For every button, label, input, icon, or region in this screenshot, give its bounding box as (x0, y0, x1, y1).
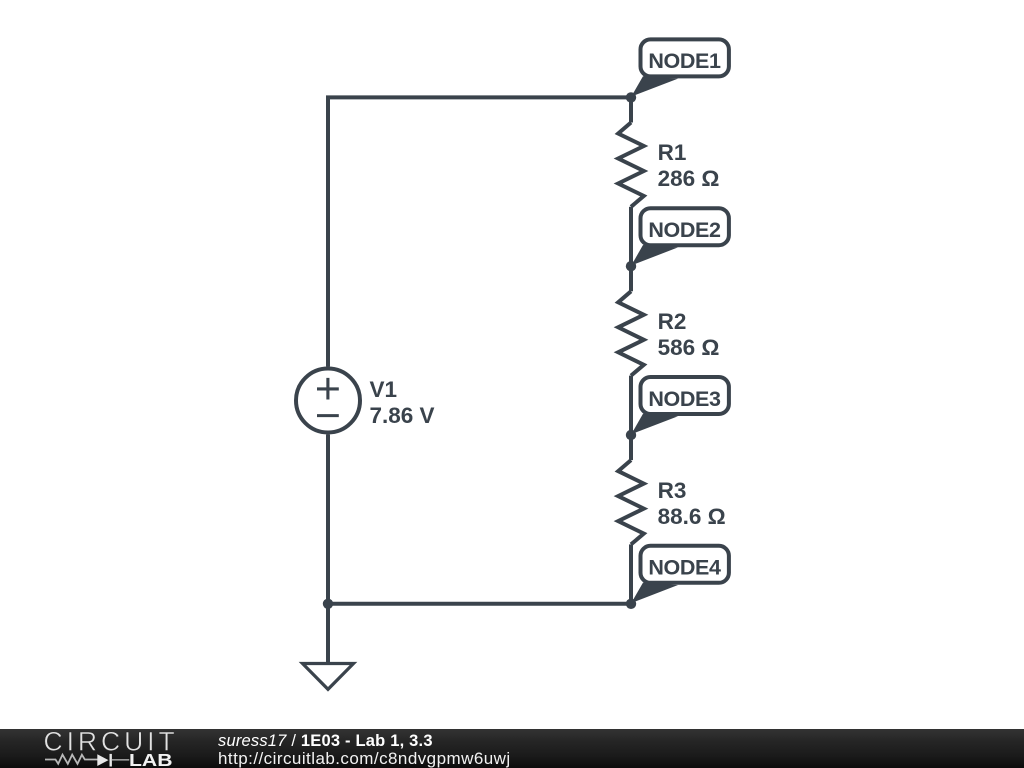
wire R1 top lead (629, 97, 633, 122)
node label NODE4 (631, 546, 729, 603)
svg-text:R2: R2 (658, 309, 687, 334)
node dot NODE1 (626, 92, 636, 102)
resistor R1 zigzag (618, 123, 644, 207)
node label NODE2 (631, 208, 729, 265)
svg-text:NODE4: NODE4 (648, 556, 721, 580)
node dot ground junction (323, 599, 333, 609)
wire top rail from V1 up and right to NODE1 (328, 97, 631, 366)
svg-text:88.6 Ω: 88.6 Ω (658, 504, 726, 529)
svg-text:286 Ω: 286 Ω (658, 166, 720, 191)
node label NODE1 (631, 39, 729, 96)
logo diode (97, 754, 108, 766)
svg-text:NODE2: NODE2 (648, 218, 721, 242)
wire bottom rail junction to NODE4 (328, 602, 631, 606)
voltage source V1 (296, 369, 360, 433)
svg-text:LAB: LAB (129, 750, 173, 768)
wire R1 bottom lead (629, 207, 633, 266)
ground (303, 664, 354, 690)
resistor R2 zigzag (618, 291, 644, 375)
logo resistor squiggle (45, 755, 98, 764)
svg-text:http://circuitlab.com/c8ndvgpm: http://circuitlab.com/c8ndvgpmw6uwj (218, 749, 511, 768)
node dot NODE4 (626, 599, 636, 609)
svg-text:R1: R1 (658, 140, 687, 165)
svg-text:suress17 / 1E03 - Lab 1, 3.3: suress17 / 1E03 - Lab 1, 3.3 (218, 732, 433, 750)
svg-text:NODE3: NODE3 (648, 387, 721, 411)
svg-text:R3: R3 (658, 478, 687, 503)
wire R2 top lead (629, 266, 633, 291)
node dot NODE3 (626, 430, 636, 440)
svg-text:7.86 V: 7.86 V (370, 403, 435, 428)
wire R2 bottom lead (629, 376, 633, 435)
wire R3 bottom lead (629, 544, 633, 603)
svg-text:V1: V1 (370, 377, 398, 402)
wire ground stem (326, 604, 330, 664)
resistor R3 zigzag (618, 460, 644, 544)
footer bar (0, 729, 1024, 768)
svg-text:586 Ω: 586 Ω (658, 335, 720, 360)
node label NODE3 (631, 377, 729, 434)
svg-text:NODE1: NODE1 (648, 49, 721, 73)
node dot NODE2 (626, 261, 636, 271)
wire left rail V1 bottom to ground junction (326, 435, 330, 604)
wire R3 top lead (629, 435, 633, 460)
